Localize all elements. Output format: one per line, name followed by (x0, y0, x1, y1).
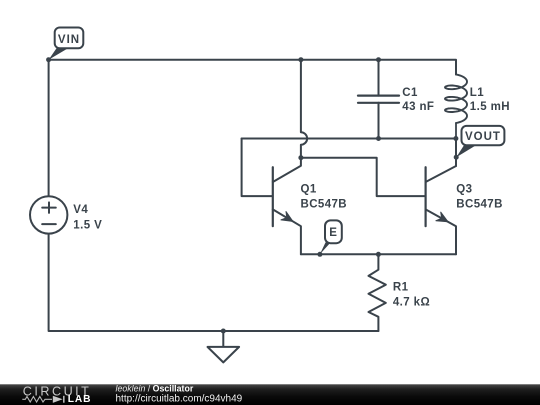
svg-text:R1: R1 (393, 282, 409, 294)
svg-text:E: E (329, 227, 338, 239)
wire Q1 base coupling (242, 139, 272, 197)
flag VIN (49, 28, 84, 60)
node VOUT junction dot (454, 155, 459, 160)
svg-text:BC547B: BC547B (456, 199, 503, 211)
resistor R1 (369, 254, 386, 331)
svg-text:1.5 mH: 1.5 mH (470, 101, 510, 113)
wire tank bottom rail (242, 138, 456, 140)
junction dot Q1 collector (298, 155, 303, 160)
wire emitter rail (301, 253, 456, 255)
flag E (320, 220, 342, 254)
svg-text:leoklein / Oscillator: leoklein / Oscillator (116, 384, 194, 394)
node VIN junction dot (46, 57, 51, 62)
svg-text:Q1: Q1 (301, 184, 317, 196)
svg-text:43 nF: 43 nF (402, 101, 434, 113)
transistor Q3 (426, 157, 456, 254)
flag VOUT (456, 126, 504, 157)
junction dot top x301 (298, 57, 303, 62)
junction dot C1 bottom (376, 136, 381, 141)
wire VIN rail down to Q1 collector node, hop over tank wire (301, 60, 307, 158)
capacitor C1 (358, 60, 399, 139)
wire V4 bottom to ground rail (49, 234, 379, 331)
svg-text:http://circuitlab.com/c94vh49: http://circuitlab.com/c94vh49 (116, 393, 243, 404)
svg-text:4.7 kΩ: 4.7 kΩ (393, 297, 430, 309)
ground (208, 331, 240, 362)
svg-text:BC547B: BC547B (301, 199, 348, 211)
voltage source V4 (30, 196, 67, 233)
wire Q1 collector to Q3 base coupling (301, 158, 425, 196)
inductor L1 (445, 75, 467, 139)
junction dot L1 bottom (453, 136, 458, 141)
svg-text:C1: C1 (402, 87, 418, 99)
svg-text:VOUT: VOUT (465, 131, 501, 143)
svg-text:LAB: LAB (68, 394, 92, 405)
junction dot ground (221, 329, 226, 334)
junction dot R1 top (376, 252, 381, 257)
svg-text:L1: L1 (470, 87, 484, 99)
node E junction dot (317, 252, 322, 257)
svg-text:V4: V4 (73, 204, 88, 216)
wire top rail VIN (49, 60, 456, 75)
wire VOUT vertical (455, 139, 457, 167)
svg-text:VIN: VIN (58, 34, 80, 46)
transistor Q1 (273, 158, 301, 255)
junction dot C1 top (376, 57, 381, 62)
logo resistor-diode line (22, 396, 64, 403)
footer bar (0, 384, 540, 405)
svg-text:1.5 V: 1.5 V (73, 219, 102, 231)
wire left rail to V4 (48, 60, 50, 197)
svg-text:Q3: Q3 (456, 184, 472, 196)
